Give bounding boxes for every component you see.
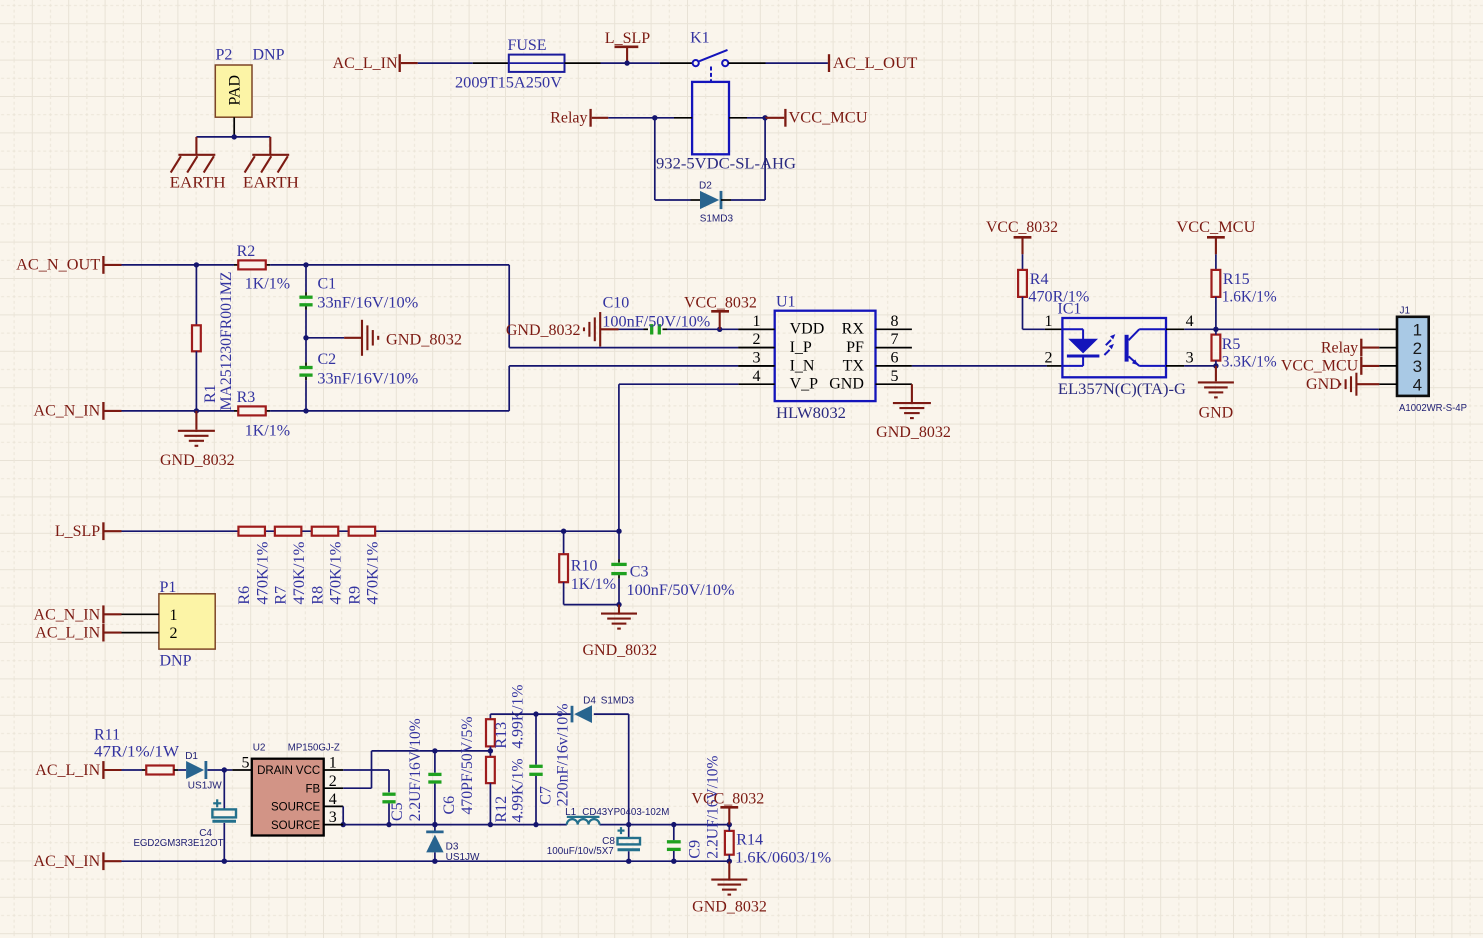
wire C4 top	[223, 770, 225, 809]
junction C2 bottom	[303, 408, 308, 413]
ic U1 pin 6 stub	[876, 365, 912, 367]
wire C2 bottom	[305, 377, 307, 411]
svg-text:R6: R6	[236, 586, 253, 605]
wire Relay to coil	[608, 117, 692, 119]
svg-text:CD43YP0403-102M: CD43YP0403-102M	[582, 807, 669, 818]
svg-text:470K/1%: 470K/1%	[291, 542, 308, 605]
svg-text:GND_8032: GND_8032	[692, 899, 767, 916]
power gnd GND_8032 u1	[893, 384, 931, 418]
wire FB elbow	[343, 751, 490, 788]
svg-text:GND: GND	[1199, 405, 1234, 422]
svg-text:L1: L1	[565, 807, 577, 818]
port VCC_MCU relay	[765, 109, 868, 127]
power gnd GND j1	[1340, 373, 1356, 396]
wire C1 bottom	[305, 306, 307, 337]
wire R12 bottom	[489, 783, 491, 825]
svg-text:Relay: Relay	[550, 110, 587, 127]
wire AC_N_OUT row	[122, 264, 510, 266]
svg-text:2: 2	[1413, 339, 1422, 358]
svg-text:3: 3	[753, 350, 761, 367]
svg-text:100nF/50V/10%: 100nF/50V/10%	[602, 314, 710, 331]
svg-text:C7: C7	[538, 786, 555, 805]
wire R1 top	[195, 265, 197, 326]
svg-text:2: 2	[329, 773, 337, 790]
resistor R6	[238, 527, 265, 536]
ic U1 pin 4 stub	[738, 383, 774, 385]
ic U1 pin 3 stub	[738, 365, 774, 367]
svg-text:US1JW: US1JW	[446, 852, 480, 863]
capacitor C9	[667, 842, 681, 850]
wire D3 top	[434, 825, 436, 832]
pin P2-1	[233, 117, 235, 137]
svg-text:4: 4	[753, 368, 761, 385]
svg-text:R2: R2	[237, 243, 256, 260]
ic U2 pin1 stub	[324, 769, 344, 771]
ic U2 pin4 stub	[324, 805, 344, 807]
svg-text:MP150GJ-Z: MP150GJ-Z	[288, 743, 340, 754]
svg-text:AC_N_IN: AC_N_IN	[34, 853, 101, 870]
junction VCC_8032 tap	[717, 327, 722, 332]
wire V_P net	[619, 384, 738, 531]
power gnd GND_8032 left	[178, 411, 215, 446]
svg-text:4: 4	[1413, 375, 1422, 394]
svg-text:GND_8032: GND_8032	[876, 424, 951, 441]
wire relay snubber left	[655, 118, 691, 200]
svg-text:AC_N_IN: AC_N_IN	[34, 606, 101, 623]
svg-text:FUSE: FUSE	[507, 37, 546, 54]
relay K1 coil	[692, 82, 729, 154]
svg-text:GND_8032: GND_8032	[160, 452, 235, 469]
wire mid to gnd	[306, 337, 362, 339]
junction C7 rail	[533, 822, 538, 827]
power port VCC_8032 r4	[1014, 237, 1032, 269]
ic U1 box	[775, 311, 876, 401]
capacitor C6	[428, 774, 441, 782]
svg-text:1.6K/0603/1%: 1.6K/0603/1%	[735, 850, 831, 867]
svg-text:EGD2GM3R3E12OT: EGD2GM3R3E12OT	[134, 838, 224, 849]
port AC_N_IN mid	[34, 402, 122, 420]
wire R4 to IC1	[1023, 297, 1063, 329]
connector P2 pad	[215, 65, 252, 117]
svg-text:V_P: V_P	[790, 376, 819, 393]
wire fuse to K1	[565, 62, 693, 64]
wire C10 to U1 pin1	[663, 328, 775, 330]
svg-text:A1002WR-S-4P: A1002WR-S-4P	[1399, 403, 1467, 414]
pin P1-2	[122, 632, 159, 634]
junction R5 bottom	[1213, 363, 1218, 368]
junction C8 bottom	[626, 859, 631, 864]
capacitor C10	[652, 324, 660, 334]
svg-text:PF: PF	[846, 339, 864, 356]
wire C8 top	[628, 825, 630, 838]
wire R10 bottom	[563, 582, 565, 604]
svg-text:R11: R11	[94, 727, 120, 744]
wire C7 top	[535, 714, 537, 765]
diode D3	[426, 832, 443, 853]
wire R10 C3 bottom	[564, 604, 619, 606]
resistor R14	[725, 831, 734, 855]
junction C5 rail	[386, 822, 391, 827]
wire GND to J1	[1356, 383, 1397, 385]
svg-text:GND_8032: GND_8032	[582, 642, 657, 659]
resistor R11	[146, 766, 174, 775]
svg-text:470K/1%: 470K/1%	[328, 542, 345, 605]
power gnd GND r5	[1198, 366, 1234, 398]
wire TX to IC1	[912, 365, 1063, 367]
svg-text:33nF/16V/10%: 33nF/16V/10%	[317, 370, 418, 387]
svg-text:2: 2	[1045, 350, 1053, 367]
ic U2 box	[252, 759, 324, 836]
svg-text:7: 7	[891, 331, 899, 348]
port AC_N_IN bottom	[34, 852, 122, 870]
wire C3 bottom	[618, 575, 620, 604]
svg-text:MA251230FR001MZ: MA251230FR001MZ	[218, 272, 235, 411]
svg-text:1K/1%: 1K/1%	[245, 422, 290, 439]
resistor R9	[349, 527, 376, 536]
svg-text:5: 5	[891, 368, 899, 385]
svg-text:I_N: I_N	[790, 357, 815, 374]
svg-text:C3: C3	[630, 564, 649, 581]
power port VCC_8032 c10	[711, 311, 729, 329]
junction gnd tap c3	[616, 602, 621, 607]
svg-text:1: 1	[329, 755, 337, 772]
svg-text:AC_L_OUT: AC_L_OUT	[833, 55, 918, 72]
wire pin4 net to J1	[1216, 328, 1397, 330]
svg-text:RX: RX	[842, 321, 865, 338]
svg-text:DNP: DNP	[160, 653, 192, 670]
svg-text:VCC_MCU: VCC_MCU	[1176, 219, 1255, 236]
wire R12 top stub	[489, 751, 491, 757]
svg-text:1: 1	[753, 313, 761, 330]
svg-text:C6: C6	[441, 796, 458, 815]
resistor R12	[486, 757, 495, 783]
wire D3 bottom	[434, 852, 436, 861]
wire R11 to D1	[174, 769, 186, 771]
wire L_SLP row	[122, 530, 620, 532]
capacitor C8	[618, 827, 641, 850]
svg-text:R1: R1	[202, 384, 219, 403]
junction D3 bottom	[432, 859, 437, 864]
svg-text:GND_8032: GND_8032	[386, 332, 462, 349]
svg-text:3: 3	[329, 809, 337, 826]
relay K1 switch contacts	[693, 50, 729, 82]
svg-text:EARTH: EARTH	[170, 175, 226, 192]
wire R1 bottom	[195, 351, 197, 411]
diode D2	[691, 191, 732, 209]
power gnd GND_8032 r14	[711, 861, 747, 894]
wire R14 stubs	[728, 825, 730, 862]
port L_SLP row	[55, 522, 122, 540]
svg-text:470K/1%: 470K/1%	[254, 542, 271, 605]
junction FB divider	[488, 748, 493, 753]
svg-text:470PF/50V/5%: 470PF/50V/5%	[459, 717, 476, 815]
svg-text:L_SLP: L_SLP	[605, 30, 650, 47]
ic U1 pin 2 stub	[738, 347, 774, 349]
junction pin4 rail	[341, 822, 346, 827]
svg-text:R8: R8	[309, 586, 326, 605]
svg-text:PAD: PAD	[227, 75, 244, 106]
resistor R1	[192, 325, 201, 351]
svg-text:EL357N(C)(TA)-G: EL357N(C)(TA)-G	[1058, 381, 1186, 398]
svg-text:DRAIN: DRAIN	[257, 765, 293, 777]
svg-text:2009T15A250V: 2009T15A250V	[455, 75, 562, 92]
junction relay left	[652, 115, 657, 120]
svg-text:R13: R13	[493, 722, 510, 749]
svg-text:R5: R5	[1222, 336, 1241, 353]
svg-text:100uF/10v/5X7: 100uF/10v/5X7	[547, 846, 614, 857]
wire C6 top	[434, 751, 436, 773]
resistor R10	[559, 554, 568, 582]
connector J1 box	[1397, 317, 1429, 396]
wire K1 to AC_L_OUT	[728, 62, 828, 64]
wire snubber rail	[490, 713, 570, 715]
svg-text:47R/1%/1W: 47R/1%/1W	[94, 744, 180, 761]
svg-text:S1MD3: S1MD3	[700, 213, 734, 224]
resistor R5	[1212, 335, 1221, 361]
opto IC1 light arrows	[1104, 334, 1115, 355]
svg-text:R7: R7	[273, 586, 290, 605]
svg-text:D1: D1	[185, 751, 198, 762]
svg-text:1.6K/1%: 1.6K/1%	[1222, 289, 1277, 306]
junction VCC_8032 out	[727, 822, 732, 827]
svg-text:5: 5	[242, 755, 250, 772]
svg-text:SOURCE: SOURCE	[271, 802, 321, 814]
svg-text:4.99K/1%: 4.99K/1%	[510, 759, 527, 823]
wire coil to VCC_MCU	[729, 117, 765, 119]
port AC_N_IN p1	[34, 605, 122, 623]
svg-text:1: 1	[1045, 313, 1053, 330]
junction earth net	[232, 134, 237, 139]
ic U1 pin 8 stub	[876, 328, 912, 330]
svg-text:33nF/16V/10%: 33nF/16V/10%	[317, 294, 418, 311]
junction C9 bottom	[671, 859, 676, 864]
ic U1 pin 5 stub	[876, 383, 912, 385]
power port VCC_MCU r15	[1207, 237, 1225, 269]
wire gnd to C10	[600, 328, 648, 330]
wire IC1 pin4	[1166, 328, 1216, 330]
wire C2 top	[305, 338, 307, 366]
svg-text:3.3K/1%: 3.3K/1%	[1222, 354, 1277, 371]
svg-text:SOURCE: SOURCE	[271, 820, 321, 832]
svg-text:R4: R4	[1030, 271, 1049, 288]
svg-text:I_P: I_P	[790, 339, 812, 356]
opto IC1 phototransistor	[1125, 329, 1166, 366]
wire R10 top	[563, 531, 565, 554]
junction C9 top	[671, 822, 676, 827]
resistor R4	[1018, 270, 1027, 297]
wire IC1 pin3	[1166, 365, 1216, 367]
capacitor C1	[299, 297, 312, 305]
power gnd GND_8032 c10	[584, 312, 600, 347]
svg-text:4.99K/1%: 4.99K/1%	[510, 685, 527, 749]
svg-text:R3: R3	[237, 389, 256, 406]
wire C9 top	[673, 825, 675, 841]
junction C3 top	[616, 529, 621, 534]
wire C8 bottom	[628, 851, 630, 861]
junction R1 bottom	[194, 408, 199, 413]
svg-text:TX: TX	[843, 357, 865, 374]
wire AC_N_IN row	[122, 410, 510, 412]
svg-text:VCC: VCC	[296, 765, 320, 777]
svg-text:8: 8	[891, 313, 899, 330]
wire C5 bottom	[388, 803, 390, 824]
fuse FUSE	[509, 55, 565, 72]
port AC_L_IN	[333, 54, 418, 72]
wire C4 bottom	[223, 823, 225, 861]
junction C7 top	[533, 711, 538, 716]
pin P1-1	[122, 613, 159, 615]
resistor R7	[275, 527, 302, 536]
wire C9 bottom	[673, 851, 675, 861]
svg-text:2: 2	[753, 331, 761, 348]
svg-text:3: 3	[1186, 350, 1194, 367]
wire R13 top stub	[489, 714, 491, 719]
junction C4 bottom	[222, 859, 227, 864]
resistor R15	[1212, 270, 1221, 297]
svg-text:3: 3	[1413, 357, 1422, 376]
wire earth net	[196, 136, 270, 138]
junction C6 rail	[432, 822, 437, 827]
junction R5 top	[1213, 327, 1218, 332]
svg-text:R9: R9	[346, 586, 363, 605]
svg-text:C1: C1	[318, 276, 337, 293]
svg-text:U2: U2	[253, 743, 266, 754]
opto IC1 led	[1062, 329, 1099, 366]
wire VCC to C5	[343, 770, 389, 792]
svg-text:VDD: VDD	[790, 321, 825, 338]
svg-text:220nF/16v/10%: 220nF/16v/10%	[555, 703, 572, 806]
resistor R8	[312, 527, 339, 536]
wire D4 to C8 node	[594, 714, 629, 825]
port AC_N_OUT	[16, 256, 121, 274]
opto IC1 box	[1062, 318, 1166, 377]
capacitor C3	[611, 564, 626, 573]
svg-text:R12: R12	[493, 796, 510, 823]
svg-text:D4: D4	[583, 695, 596, 706]
svg-text:1: 1	[1413, 321, 1422, 340]
svg-text:C10: C10	[603, 295, 630, 312]
port VCC_MCU j1	[1281, 357, 1397, 375]
power gnd GND_8032 c3	[601, 605, 637, 629]
wire C7 bottom	[535, 776, 537, 825]
svg-text:S1MD3: S1MD3	[601, 695, 635, 706]
wire D1 to U2	[208, 769, 252, 771]
svg-text:DNP: DNP	[253, 47, 285, 64]
port AC_L_IN bottom	[35, 761, 121, 779]
inductor L1	[567, 817, 600, 825]
svg-text:K1: K1	[690, 30, 710, 47]
wire AC_L_IN to fuse	[418, 62, 509, 64]
ic U2 pin2 stub	[324, 787, 344, 789]
power gnd GND_8032 mid	[362, 320, 378, 356]
wire R15 down	[1215, 297, 1217, 329]
svg-text:VCC_8032: VCC_8032	[684, 295, 757, 312]
wire source rail	[343, 824, 729, 826]
diode D1	[186, 761, 206, 779]
junction R12 rail	[488, 822, 493, 827]
junction R14 bottom	[727, 859, 732, 864]
svg-text:L_SLP: L_SLP	[55, 523, 100, 540]
ic U2 pin3 stub	[324, 824, 344, 826]
wire R13 bottom stub	[489, 746, 491, 751]
port Relay	[550, 109, 608, 127]
port Relay j1	[1321, 339, 1397, 357]
junction C8 top	[626, 822, 631, 827]
wire I_N net elbow	[509, 366, 775, 411]
svg-text:1K/1%: 1K/1%	[571, 576, 616, 593]
wire R5 stubs	[1215, 329, 1217, 366]
svg-text:2.2UF/16V/10%: 2.2UF/16V/10%	[407, 718, 424, 821]
junction C4 top	[222, 767, 227, 772]
connector P1 box	[159, 594, 215, 649]
power port L_SLP top	[615, 47, 639, 63]
junction L_SLP tap	[624, 60, 629, 65]
capacitor C2	[299, 368, 312, 376]
junction C6 top	[432, 748, 437, 753]
wire C3 top	[618, 531, 620, 562]
svg-text:1K/1%: 1K/1%	[245, 276, 290, 293]
svg-text:US1JW: US1JW	[188, 781, 222, 792]
svg-text:C5: C5	[389, 802, 406, 821]
svg-text:C2: C2	[318, 351, 337, 368]
svg-text:AC_N_IN: AC_N_IN	[34, 403, 101, 420]
earth symbol left	[171, 137, 216, 173]
resistor R2	[238, 260, 266, 269]
svg-text:R15: R15	[1223, 271, 1250, 288]
svg-text:AC_L_IN: AC_L_IN	[333, 55, 398, 72]
svg-text:GND: GND	[1306, 376, 1341, 393]
power port VCC_8032 out	[720, 807, 738, 824]
svg-text:AC_L_IN: AC_L_IN	[35, 625, 100, 642]
resistor R13	[486, 719, 495, 746]
port AC_L_OUT	[828, 54, 918, 72]
svg-text:U1: U1	[776, 294, 796, 311]
wire AC_N rail	[122, 860, 730, 862]
svg-text:1: 1	[170, 607, 178, 624]
junction C1 top	[303, 262, 308, 267]
svg-text:AC_N_OUT: AC_N_OUT	[16, 257, 100, 274]
capacitor C4	[212, 799, 236, 821]
svg-text:VCC_8032: VCC_8032	[986, 219, 1058, 236]
svg-text:470K/1%: 470K/1%	[365, 542, 382, 605]
diode D4	[572, 705, 592, 723]
wire pin4 to rail	[342, 806, 344, 824]
junction R10 top	[561, 529, 566, 534]
junction R1 top	[194, 262, 199, 267]
svg-text:GND: GND	[829, 376, 864, 393]
junction C1-C2 mid	[303, 335, 308, 340]
svg-text:100nF/50V/10%: 100nF/50V/10%	[627, 582, 735, 599]
wire C1 top	[305, 265, 307, 296]
junction relay right	[762, 115, 767, 120]
svg-text:4: 4	[329, 791, 337, 808]
svg-text:C9: C9	[687, 840, 704, 859]
svg-text:J1: J1	[1400, 305, 1411, 316]
svg-text:AC_L_IN: AC_L_IN	[35, 762, 100, 779]
svg-text:FB: FB	[305, 783, 320, 795]
svg-text:932-5VDC-SL-AHG: 932-5VDC-SL-AHG	[656, 155, 796, 172]
svg-text:GND_8032: GND_8032	[506, 322, 581, 339]
wire relay snubber right	[731, 118, 765, 200]
svg-text:D2: D2	[699, 181, 712, 192]
svg-text:R14: R14	[736, 832, 763, 849]
svg-text:IC1: IC1	[1057, 300, 1081, 317]
svg-text:P2: P2	[216, 47, 233, 64]
svg-text:2: 2	[170, 625, 178, 642]
resistor R3	[238, 406, 266, 415]
svg-text:4: 4	[1186, 313, 1194, 330]
svg-text:Relay: Relay	[1321, 339, 1358, 356]
